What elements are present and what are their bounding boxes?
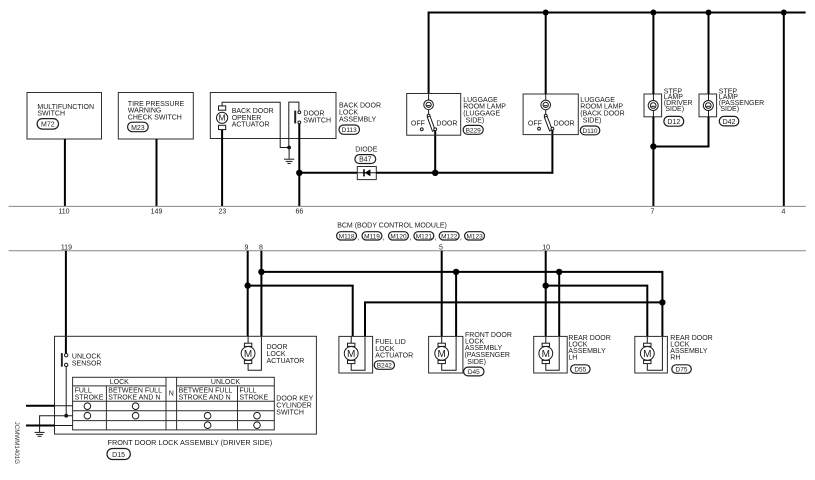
svg-text:8: 8: [259, 244, 263, 251]
svg-text:ACTUATOR: ACTUATOR: [232, 122, 270, 129]
svg-text:5: 5: [439, 244, 443, 251]
wire: feed row C inside box: [55, 425, 73, 427]
connector D75: [672, 365, 692, 374]
svg-text:M120: M120: [390, 233, 407, 240]
wire: D12 to BCM pin 7: [652, 117, 654, 207]
svg-text:M: M: [347, 349, 355, 360]
svg-text:SIDE): SIDE): [720, 106, 739, 113]
label: REAR DOOR LOCK ASSEMBLY LH: [568, 335, 610, 362]
svg-text:119: 119: [61, 244, 72, 251]
connector B242: [374, 361, 394, 370]
wire: door switch to ground link: [289, 102, 299, 147]
svg-text:,: ,: [435, 235, 437, 242]
wire: BCM pin 10 down to rear door LH: [545, 251, 547, 337]
svg-text:,: ,: [383, 235, 385, 242]
svg-text:OFF: OFF: [528, 120, 542, 127]
svg-text:CHECK SWITCH: CHECK SWITCH: [128, 115, 182, 122]
svg-text:M23: M23: [131, 125, 145, 132]
svg-text:ACTUATOR: ACTUATOR: [267, 358, 305, 365]
wire: lamp B229 DOOR contact down: [434, 131, 436, 173]
svg-text:SWITCH: SWITCH: [276, 410, 304, 417]
connector M122: [439, 232, 462, 242]
switch M72 MULTIFUNCTION SWITCH box: [27, 93, 102, 140]
connector M121: [414, 232, 437, 242]
svg-text:UNLOCK: UNLOCK: [211, 379, 241, 386]
svg-text:D45: D45: [468, 369, 480, 376]
connector M23: [128, 122, 149, 132]
node: junction dot pin 10 branch: [543, 282, 549, 288]
contact circles row C unlock: [204, 422, 260, 429]
wire: top bus to D42: [708, 13, 710, 95]
wire: diode to luggage room lamps: [376, 172, 552, 174]
wire: top bus to lamp D110: [545, 13, 547, 95]
label: FUEL LID LOCK ACTUATOR: [375, 339, 413, 359]
contact circles row A lock: [84, 403, 139, 410]
node: junction dot luggage lamp D110 on top bus: [543, 10, 549, 16]
wire: feed stub row A (thick): [26, 405, 55, 407]
svg-text:B229: B229: [466, 128, 482, 135]
lamp D12 STEP LAMP (DRIVER SIDE): [644, 94, 662, 117]
wire: top bus to BCM pin 4: [783, 13, 785, 207]
connector D110: [580, 126, 600, 135]
wire: feed stub row C (thick): [26, 425, 55, 427]
lamp D42 STEP LAMP (PASSENGER SIDE): [699, 94, 717, 117]
wire: common rail to rear door RH: [261, 272, 662, 337]
connector D113: [339, 125, 360, 134]
svg-text:D75: D75: [676, 367, 688, 374]
node: junction dot pin 9 / fuel lid branch: [245, 282, 251, 288]
lamp D110 LUGGAGE ROOM LAMP (BACK DOOR SIDE) box: [523, 94, 578, 135]
wire: M72 to BCM pin 110: [64, 139, 66, 206]
svg-text:D42: D42: [723, 119, 736, 126]
wire: door switch to BCM pin 66: [298, 124, 300, 207]
svg-text:M123: M123: [466, 233, 483, 240]
svg-text:D15: D15: [112, 452, 125, 459]
wire: M23 to BCM pin 149: [156, 139, 158, 206]
svg-text:DOOR: DOOR: [554, 120, 575, 127]
svg-text:LOCK: LOCK: [267, 351, 286, 358]
wire: pin 9 branch to fuel lid actuator: [248, 286, 353, 337]
svg-text:M122: M122: [441, 233, 458, 240]
wire: motor to BCM pin 23: [221, 130, 223, 207]
connector D15: [107, 449, 130, 460]
node: junction dot D45 branch: [453, 269, 459, 275]
motor: back door opener actuator: [217, 106, 228, 130]
connector M119: [362, 232, 385, 242]
svg-text:B47: B47: [359, 157, 372, 164]
svg-text:D55: D55: [574, 367, 586, 374]
connector B229: [463, 125, 483, 134]
wire: D42 down and left to D12 junction: [653, 117, 708, 147]
svg-text:ACTUATOR: ACTUATOR: [375, 353, 413, 360]
svg-text:D12: D12: [667, 119, 680, 126]
svg-text:LOCK: LOCK: [110, 379, 129, 386]
wire: branch to D55 right terminal: [558, 272, 560, 337]
svg-text:STROKE AND N: STROKE AND N: [108, 394, 160, 401]
label: REAR DOOR LOCK ASSEMBLY RH: [670, 335, 712, 362]
rear door lock assembly RH D75 box: [635, 336, 668, 373]
label: FRONT DOOR LOCK ASSEMBLY (PASSENGER SIDE): [465, 332, 512, 366]
node: junction dot pin 8 / common rail: [258, 269, 264, 275]
label: LUGGAGE ROOM LAMP (LUGGAGE SIDE): [463, 97, 506, 124]
svg-text:STROKE: STROKE: [75, 394, 104, 401]
svg-text:M72: M72: [41, 122, 55, 129]
lamp B229 LUGGAGE ROOM LAMP (LUGGAGE SIDE) box: [407, 94, 461, 136]
svg-text:D113: D113: [342, 127, 357, 134]
BCM (BODY CONTROL MODULE) band: [9, 206, 806, 250]
wire: top bus to D12: [652, 13, 654, 95]
svg-text:DOOR KEY: DOOR KEY: [276, 395, 313, 402]
svg-text:SWITCH: SWITCH: [37, 111, 65, 118]
svg-text:,: ,: [357, 235, 359, 242]
ground: back door: [284, 148, 294, 164]
ground: key cylinder: [35, 432, 45, 436]
svg-text:23: 23: [219, 208, 227, 215]
svg-text:M: M: [643, 349, 651, 360]
table: door key cylinder switch: [73, 377, 275, 430]
wire: branch to D45 right terminal: [455, 272, 457, 337]
svg-text:N: N: [169, 391, 174, 398]
wire: BCM pin 119 to unlock sensor: [65, 251, 67, 354]
wire: lamp feed inside box D110: [545, 94, 547, 100]
svg-text:STROKE: STROKE: [239, 394, 268, 401]
svg-text:UNLOCK: UNLOCK: [72, 354, 102, 361]
svg-text:B242: B242: [377, 363, 393, 370]
wire: BCM pin 5 down to front door passenger: [441, 251, 443, 337]
front door lock assembly driver side D15 box: [55, 336, 317, 434]
svg-text:,: ,: [409, 235, 411, 242]
wire: BCM pin 8 down: [260, 251, 262, 337]
svg-text:SENSOR: SENSOR: [72, 361, 102, 368]
front door lock assembly passenger D45 box: [429, 336, 463, 373]
svg-text:SIDE): SIDE): [583, 117, 602, 124]
wire: lamp to switch pivot B229: [428, 110, 430, 115]
svg-text:,: ,: [460, 235, 462, 242]
svg-text:SIDE): SIDE): [665, 106, 684, 113]
svg-text:7: 7: [651, 208, 655, 215]
label: DOOR LOCK ACTUATOR: [267, 344, 305, 365]
connector M118: [337, 232, 360, 242]
svg-text:M: M: [219, 113, 226, 123]
node: junction dot step lamps: [650, 143, 656, 149]
svg-text:M: M: [244, 349, 252, 360]
connector M72: [37, 119, 58, 130]
svg-text:SWITCH: SWITCH: [303, 117, 331, 124]
svg-text:RH: RH: [670, 354, 680, 361]
label: STEP LAMP (PASSENGER SIDE): [719, 88, 764, 112]
svg-text:OFF: OFF: [411, 121, 425, 128]
diode B47: [355, 147, 378, 180]
wire: junction to diode: [299, 172, 357, 174]
node: junction dot sensor/rowB: [64, 414, 68, 418]
svg-text:SIDE): SIDE): [466, 117, 485, 124]
svg-text:STROKE AND N: STROKE AND N: [179, 394, 231, 401]
wire: pin 10 branch to rear door RH motor: [546, 286, 648, 337]
back door lock assembly D113 box: [210, 93, 336, 139]
node: junction dot fuel lid rail joins RH drop: [659, 299, 665, 305]
fuel lid lock actuator B242 box: [339, 336, 373, 373]
svg-text:WARNING: WARNING: [128, 108, 162, 115]
connector M120: [389, 232, 412, 242]
svg-text:BCM (BODY CONTROL MODULE): BCM (BODY CONTROL MODULE): [337, 223, 447, 230]
wire: unlock sensor to key cylinder row B: [65, 367, 67, 416]
svg-text:SIDE): SIDE): [467, 359, 486, 366]
label: BACK DOOR LOCK ASSEMBLY: [339, 103, 381, 124]
svg-text:DOOR: DOOR: [436, 121, 457, 128]
node: junction dot pin 4 on top bus: [781, 10, 787, 16]
svg-text:4: 4: [782, 208, 786, 215]
svg-text:M121: M121: [416, 233, 433, 240]
svg-text:M: M: [438, 349, 446, 360]
svg-text:66: 66: [296, 208, 304, 215]
svg-text:FRONT DOOR LOCK ASSEMBLY (DRIV: FRONT DOOR LOCK ASSEMBLY (DRIVER SIDE): [108, 438, 273, 447]
wire: top power bus: [429, 13, 806, 94]
svg-text:M118: M118: [339, 233, 355, 240]
rear door lock assembly LH D55 box: [534, 336, 568, 373]
label: LUGGAGE ROOM LAMP (BACK DOOR SIDE): [580, 97, 624, 124]
node: ground junction dot: [287, 146, 291, 150]
wire: lamp feed inside box B229: [428, 94, 430, 101]
svg-text:CYLINDER: CYLINDER: [276, 403, 311, 410]
node: junction dot step lamp D42 on top bus: [706, 10, 712, 16]
label: DOOR KEY CYLINDER SWITCH: [276, 395, 313, 416]
wire: lamp to switch pivot D110: [545, 110, 547, 115]
wire: feed row A inside box: [55, 405, 73, 407]
svg-text:M119: M119: [364, 233, 380, 240]
svg-text:DIODE: DIODE: [355, 147, 378, 154]
motor: door lock actuator (driver): [241, 336, 261, 370]
wire: fuel lid right terminal rail: [365, 302, 662, 336]
node: junction dot pin66 / diode wire: [296, 170, 302, 176]
label: STEP LAMP (DRIVER SIDE): [664, 88, 693, 112]
node: junction dot step lamp D12 on top bus: [650, 10, 656, 16]
svg-text:D110: D110: [582, 128, 597, 135]
connector D45: [464, 367, 484, 376]
switch: back door switch: [294, 110, 331, 124]
svg-text:M: M: [542, 349, 550, 360]
svg-text:9: 9: [244, 244, 248, 251]
connector D55: [571, 365, 591, 374]
connector D12: [664, 116, 684, 126]
switch: unlock sensor: [61, 353, 102, 368]
svg-text:149: 149: [151, 208, 163, 215]
svg-text:LH: LH: [568, 354, 577, 361]
switch M23 TIRE PRESSURE WARNING CHECK SWITCH box: [118, 93, 193, 140]
svg-text:110: 110: [58, 208, 69, 215]
connector D42: [719, 116, 739, 126]
contact circles row B: [84, 412, 260, 419]
connector M123: [465, 232, 485, 241]
wire: feed row B with ground: [40, 416, 73, 433]
svg-text:JCMWM1401G: JCMWM1401G: [13, 422, 20, 464]
node: junction dot D55 branch: [556, 269, 562, 275]
node: junction dot lamp B229 branch: [432, 170, 438, 176]
svg-text:ASSEMBLY: ASSEMBLY: [339, 116, 377, 123]
svg-text:10: 10: [542, 244, 550, 251]
wire: BCM pin 9 down to door lock actuator: [247, 251, 249, 337]
wire: motor second terminal loop inside D113: [222, 102, 289, 147]
wire: lamp D110 DOOR contact down: [551, 130, 553, 174]
